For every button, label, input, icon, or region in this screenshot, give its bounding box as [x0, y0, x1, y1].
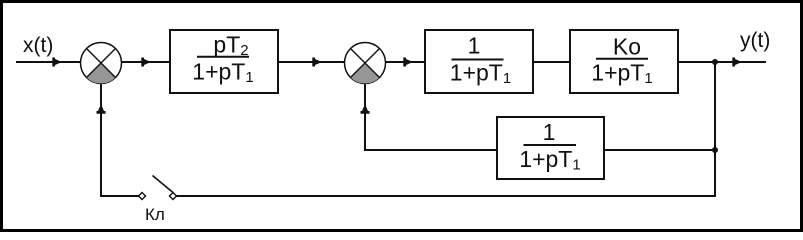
arrowhead up into S2 [361, 104, 370, 114]
svg-text:Ko: Ko [613, 34, 641, 60]
svg-text:y(t): y(t) [740, 29, 770, 52]
label x(t) [23, 34, 53, 57]
switch lever [153, 176, 174, 193]
svg-text:1+pT1: 1+pT1 [519, 146, 580, 174]
arrowhead input [52, 58, 62, 67]
label y(t) [740, 29, 770, 52]
wire W4 right to tap [604, 149, 715, 151]
svg-text:1+pT1: 1+pT1 [450, 60, 511, 88]
wire W4 left to S2 branch [365, 84, 497, 151]
arrowhead output [732, 58, 742, 67]
arrowhead up into S1 [97, 104, 106, 114]
svg-text:Кл: Кл [145, 205, 165, 224]
wire bottom feedback right segment [177, 195, 716, 197]
wire bottom feedback left segment [101, 84, 139, 197]
summing junction S1 [81, 43, 122, 84]
summing junction S2 [345, 43, 386, 84]
junction dot feedback [712, 147, 718, 153]
wire W1 to S2 [278, 61, 345, 63]
block W2 1/(1+pT1) [425, 30, 533, 93]
svg-text:1+pT1: 1+pT1 [192, 59, 253, 87]
label Kл [145, 205, 165, 224]
wire S2 to W2 [386, 61, 426, 63]
wire tap vertical [714, 62, 716, 197]
switch contact left [138, 192, 145, 199]
wire W2 to W3 [533, 61, 570, 63]
wire S1 to W1 [122, 61, 171, 63]
block W1 pT2/(1+pT1) [170, 30, 278, 93]
block W4 1/(1+pT1) feedback [497, 117, 604, 179]
wire input [16, 61, 81, 63]
svg-text:1+pT1: 1+pT1 [591, 60, 652, 88]
switch Kл contact right [169, 192, 176, 199]
wire output [678, 61, 766, 63]
svg-text:1: 1 [468, 33, 481, 59]
arrowhead into W2 [403, 58, 413, 67]
junction dot output tap [712, 59, 718, 65]
block W3 Ko/(1+pT1) [570, 30, 678, 93]
svg-text:1: 1 [543, 119, 556, 145]
arrowhead into S2 [312, 58, 322, 67]
svg-text:x(t): x(t) [23, 34, 53, 57]
arrowhead into W1 [141, 58, 151, 67]
